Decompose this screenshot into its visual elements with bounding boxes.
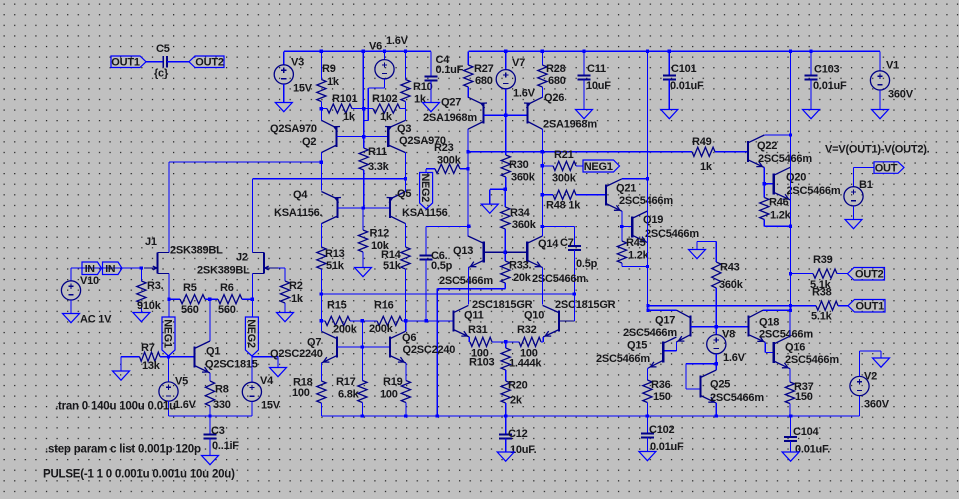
ground below R12: [355, 268, 372, 277]
svg-text:R5: R5: [183, 282, 197, 294]
transistor Q13 2SC5466m: [483, 241, 485, 262]
resistor R6: [208, 298, 211, 301]
net flag OUT: [874, 162, 904, 174]
svg-text:R33.: R33.: [509, 260, 532, 272]
resistor R20: [501, 381, 510, 403]
wire +360V rail B: [468, 50, 880, 52]
wire Q3-Q5 emitter column: [404, 177, 407, 180]
wire long VAS column: [646, 50, 649, 53]
svg-text:C5: C5: [156, 43, 170, 55]
transistor Q16 2SC5466m: [773, 342, 775, 363]
voltage source V1: [879, 51, 881, 71]
wire R33 to negative rail: [437, 288, 505, 290]
wire Q21 emitter to Q19 base: [621, 211, 623, 226]
svg-text:6.8k: 6.8k: [338, 389, 360, 401]
wire Q14 collector to C7: [541, 225, 544, 228]
svg-text:R31: R31: [468, 324, 488, 336]
svg-text:R27: R27: [474, 63, 494, 75]
wire J2 gate to R2: [278, 267, 285, 269]
wire Q21 collector: [622, 178, 648, 180]
resistor R28: [541, 50, 544, 53]
svg-text:1.6V: 1.6V: [174, 399, 197, 411]
wire V4 to ground link: [251, 401, 253, 416]
ground below C104: [782, 452, 799, 461]
capacitor C4: [430, 51, 432, 76]
resistor R45: [621, 227, 623, 242]
ground below V10: [70, 300, 72, 314]
svg-text:Q2SA970: Q2SA970: [270, 123, 317, 135]
ground below V3: [283, 84, 285, 103]
svg-text:2SC5466m: 2SC5466m: [710, 392, 764, 404]
ground below C101: [661, 110, 678, 119]
svg-text:Q20: Q20: [786, 172, 806, 184]
wire bias column: [362, 50, 365, 53]
net flag NEG2 (VAS): [425, 169, 427, 173]
wire Q7/Q6 base rail: [337, 346, 390, 348]
svg-text:Q18: Q18: [759, 317, 779, 329]
svg-text:R13: R13: [325, 248, 345, 260]
svg-text:Q13: Q13: [453, 245, 473, 257]
wire +15V rail A: [284, 50, 431, 52]
svg-text:R12: R12: [370, 228, 390, 240]
ground right of NEG2: [270, 368, 287, 377]
resistor R31: [468, 337, 470, 342]
svg-text:1.2k: 1.2k: [628, 250, 650, 262]
capacitor C12: [505, 416, 507, 435]
svg-text:1k: 1k: [327, 76, 340, 88]
resistor R38: [789, 304, 792, 307]
voltage source V8: [707, 335, 726, 354]
svg-text:R102: R102: [372, 93, 398, 105]
svg-text:Q6: Q6: [402, 332, 416, 344]
net flag NEG2 (input stage): [251, 299, 253, 317]
svg-text:2SA1968m: 2SA1968m: [423, 112, 477, 124]
wire Q6 collector drop: [405, 321, 407, 331]
transistor Q18 2SC5466m: [747, 316, 749, 337]
ground below C3: [202, 456, 219, 465]
svg-text:IN: IN: [85, 263, 95, 275]
wire C5 to OUT2: [167, 61, 189, 63]
capacitor C11: [582, 50, 585, 53]
svg-text:OUT1: OUT1: [856, 301, 885, 313]
wire Q16 collector: [789, 310, 791, 336]
transistor Q22 2SC5466m: [747, 141, 749, 162]
svg-text:R103: R103: [469, 357, 495, 369]
transistor Q15 2SC5466m: [662, 341, 664, 362]
resistor R46: [763, 184, 765, 198]
svg-text:20k: 20k: [513, 272, 532, 284]
svg-text:2SC5466m: 2SC5466m: [787, 185, 841, 197]
svg-text:1.6V: 1.6V: [513, 88, 536, 100]
wire Q26-collector column down: [541, 152, 543, 227]
wire Q14 emitter to Q10 collector: [542, 268, 544, 305]
wire mirror rail mid: [320, 292, 323, 295]
ground below C11: [576, 110, 593, 119]
svg-text:R32: R32: [517, 324, 537, 336]
svg-text:V3: V3: [291, 57, 304, 69]
svg-text:0.01uF: 0.01uF: [813, 80, 847, 92]
ground below V1: [879, 90, 881, 110]
svg-text:150: 150: [653, 391, 671, 403]
svg-text:R9: R9: [322, 63, 336, 75]
svg-text:V4: V4: [260, 375, 274, 387]
wire right output column: [790, 51, 792, 310]
wire VAS rail to R49: [468, 151, 692, 153]
wire J1 source column: [168, 274, 170, 300]
svg-text:V1: V1: [886, 60, 899, 72]
wire Q2 collector: [320, 109, 322, 121]
resistor R18: [320, 363, 322, 381]
wire Q4/Q5 base rail: [338, 207, 391, 209]
svg-text:Q19: Q19: [643, 214, 663, 226]
svg-text:R46: R46: [769, 197, 789, 209]
svg-text:100: 100: [380, 389, 398, 401]
svg-text:1k: 1k: [414, 94, 427, 106]
svg-text:R48 1k: R48 1k: [546, 200, 581, 212]
svg-text:R38: R38: [812, 287, 832, 299]
wire Q26/Q27 base rail: [483, 114, 527, 116]
svg-text:2SC5466m: 2SC5466m: [619, 195, 673, 207]
svg-text:C11: C11: [587, 63, 606, 75]
svg-text:R3.: R3.: [147, 280, 164, 292]
svg-text:2SC5466m: 2SC5466m: [439, 275, 493, 287]
svg-text:B1: B1: [859, 179, 873, 191]
resistor R39: [789, 272, 792, 275]
ground above V2: [860, 350, 882, 352]
wire Q10 base branch: [559, 320, 575, 322]
transistor Q5 KSA1156: [389, 197, 391, 218]
wire Q25 base loop: [686, 363, 716, 365]
svg-text:2SC5466m: 2SC5466m: [596, 353, 650, 365]
resistor R21: [541, 164, 544, 167]
svg-text:Q27: Q27: [441, 97, 461, 109]
wire Q13 base branch: [467, 169, 469, 227]
svg-text:560: 560: [181, 304, 199, 316]
svg-text:150: 150: [795, 391, 813, 403]
transistor Q11 2SC1815GR: [453, 311, 455, 332]
svg-text:2SC1815GR: 2SC1815GR: [555, 299, 616, 311]
svg-text:360k: 360k: [512, 219, 537, 231]
svg-text:2SK389BL: 2SK389BL: [170, 245, 223, 257]
wire OUT1 to C5: [146, 61, 163, 63]
svg-text:200k: 200k: [333, 324, 358, 336]
svg-text:2SC5466m: 2SC5466m: [759, 329, 813, 341]
svg-text:NEG2: NEG2: [245, 319, 257, 348]
svg-text:300k: 300k: [437, 155, 462, 167]
svg-text:Q2SC2240: Q2SC2240: [403, 344, 456, 356]
svg-text:1.6V: 1.6V: [723, 352, 746, 364]
svg-text:300k: 300k: [552, 173, 577, 185]
svg-text:13k: 13k: [142, 360, 161, 372]
svg-text:Q4: Q4: [293, 189, 308, 201]
svg-text:.tran 0 140u 100u 0.01u: .tran 0 140u 100u 0.01u: [55, 400, 176, 412]
resistor R49: [692, 147, 715, 156]
net flag OUT1: [111, 56, 146, 68]
svg-text:V6: V6: [369, 41, 382, 53]
svg-text:R20: R20: [508, 380, 528, 392]
svg-text:Q7: Q7: [307, 337, 321, 349]
svg-text:OUT2: OUT2: [195, 57, 224, 69]
svg-text:2SC5466m.: 2SC5466m.: [532, 273, 589, 285]
svg-text:R6: R6: [220, 282, 234, 294]
svg-text:1.6V: 1.6V: [386, 35, 409, 47]
svg-text:360V: 360V: [864, 399, 890, 411]
wire V5-V4 bottom link: [169, 415, 252, 417]
ground left of R7: [120, 357, 122, 371]
transistor Q10 2SC1815GR: [558, 311, 560, 332]
jfet J1 2SK389BL: [157, 253, 159, 274]
svg-text:R36: R36: [651, 379, 671, 391]
svg-text:C3: C3: [211, 425, 225, 437]
svg-text:1.444k: 1.444k: [509, 358, 542, 370]
wire output rails pair: [646, 304, 649, 307]
svg-text:.step param c list 0.001p 120p: .step param c list 0.001p 120p: [45, 443, 201, 455]
svg-text:R19: R19: [383, 376, 403, 388]
wire J1 drain rail: [168, 162, 170, 252]
svg-text:0.5p: 0.5p: [576, 258, 598, 270]
svg-text:100: 100: [292, 387, 310, 399]
svg-text:R11: R11: [368, 146, 387, 158]
net flag OUT2: [189, 56, 224, 68]
resistor R19: [405, 363, 407, 381]
svg-text:R16: R16: [374, 300, 394, 312]
capacitor C3: [208, 414, 211, 417]
svg-text:OUT1: OUT1: [111, 57, 140, 69]
wire Q25 emitter: [715, 403, 717, 416]
transistor Q25 2SC5466m: [699, 376, 701, 398]
svg-text:1k: 1k: [380, 111, 393, 123]
svg-text:R101: R101: [332, 93, 358, 105]
wire Q13 emitter to Q11 collector: [467, 268, 469, 305]
voltage source V2: [859, 396, 861, 416]
voltage source V7: [504, 50, 507, 53]
net flag NEG1 (input stage): [168, 299, 170, 317]
svg-text:0..1iF: 0..1iF: [212, 440, 239, 452]
wire Q18 collector: [763, 309, 791, 311]
resistor R12: [362, 208, 364, 230]
transistor Q21 2SC5466m: [605, 185, 607, 206]
resistor R7: [121, 356, 140, 358]
wire V7 to R30: [505, 89, 507, 155]
svg-text:Q17: Q17: [655, 315, 675, 327]
svg-text:J1: J1: [145, 236, 157, 248]
svg-text:0.01uF.: 0.01uF.: [795, 444, 830, 456]
wire V6 loop: [384, 79, 386, 88]
wire Q22 collector: [764, 134, 790, 136]
svg-text:2SK389BL: 2SK389BL: [197, 265, 250, 277]
svg-text:KSA1156: KSA1156: [402, 207, 448, 219]
svg-text:3.3k: 3.3k: [368, 161, 390, 173]
net flag NEG1 (VAS): [583, 160, 620, 172]
wire V5 to ground link: [168, 401, 170, 416]
svg-text:Q11: Q11: [464, 310, 484, 322]
wire Q2/Q3 base rail: [337, 136, 389, 138]
wire C6 branch: [426, 225, 469, 227]
svg-text:15V: 15V: [293, 83, 313, 95]
transistor Q7 Q2SC2240: [336, 337, 338, 358]
svg-text:AC 1V: AC 1V: [80, 314, 112, 326]
resistor R48: [541, 193, 544, 196]
svg-text:Q21: Q21: [616, 183, 636, 195]
svg-text:KSA1156.: KSA1156.: [274, 207, 323, 219]
ground bend above R43: [697, 241, 716, 243]
svg-text:1k: 1k: [700, 161, 713, 173]
svg-text:V10: V10: [80, 275, 99, 287]
wire negative rail: [321, 415, 859, 417]
transistor Q17 2SC5466m: [677, 310, 691, 318]
svg-text:2SC5466m: 2SC5466m: [785, 354, 839, 366]
wire Q26 collector drop: [541, 129, 543, 152]
resistor R101: [320, 107, 323, 110]
resistor R3: [140, 266, 143, 269]
svg-text:R39: R39: [813, 254, 833, 266]
capacitor C6: [420, 255, 433, 257]
wire Q18 emitter to Q16 base: [764, 342, 766, 352]
svg-text:C102: C102: [649, 424, 675, 436]
wire NEG2 node to V4 and ground: [251, 355, 253, 358]
ground bend at R30/R34: [504, 188, 507, 191]
wire Q22 emitter to Q20 base: [763, 168, 765, 184]
wire Q1 collector to R5/R6 junction: [209, 299, 211, 341]
resistor R17 drop: [361, 321, 363, 381]
svg-text:360k: 360k: [719, 279, 744, 291]
voltage source V6: [383, 50, 386, 53]
svg-text:C101: C101: [671, 63, 697, 75]
svg-text:0.1uF: 0.1uF: [436, 64, 464, 76]
svg-text:Q10: Q10: [524, 310, 544, 322]
transistor Q20 2SC5466m: [773, 173, 775, 194]
svg-text:Q14: Q14: [538, 238, 559, 250]
wire J2 source column: [251, 298, 254, 301]
junction R16/C6/R14: [404, 319, 407, 322]
resistor R14: [405, 224, 407, 247]
svg-text:910k: 910k: [137, 300, 162, 312]
svg-text:680: 680: [548, 75, 566, 87]
svg-text:Q16: Q16: [785, 342, 805, 354]
jfet J2 2SK389BL: [263, 253, 265, 274]
svg-text:V5: V5: [175, 376, 188, 388]
resistor R27: [467, 51, 469, 65]
transistor Q27 2SA1968m: [482, 103, 484, 124]
svg-text:10uF: 10uF: [586, 80, 611, 92]
svg-text:V8: V8: [722, 329, 735, 341]
svg-text:Q3: Q3: [397, 123, 411, 135]
transistor Q1 Q2SC1815: [193, 347, 195, 368]
ground below C103: [803, 110, 820, 119]
svg-text:330: 330: [213, 399, 231, 411]
net flag OUT1 (tap): [848, 300, 885, 313]
node Q13/Q14 bases: [504, 251, 507, 254]
svg-text:PULSE(-1 1 0 0.001u 0.001u 10u: PULSE(-1 1 0 0.001u 0.001u 10u 20u): [43, 468, 235, 480]
svg-text:R15: R15: [327, 300, 347, 312]
resistor R2: [280, 281, 289, 303]
transistor Q14 2SC5466m: [526, 241, 528, 262]
svg-text:Q1: Q1: [206, 346, 220, 358]
resistor R37: [789, 369, 791, 382]
ground below R2: [277, 313, 294, 322]
svg-text:R21: R21: [554, 149, 574, 161]
svg-text:560: 560: [218, 304, 236, 316]
transistor Q3 2SA970: [387, 126, 389, 147]
voltage source V5: [168, 357, 170, 382]
resistor R32: [504, 340, 507, 343]
svg-text:V2: V2: [864, 371, 877, 383]
svg-text:OUT: OUT: [875, 162, 898, 174]
wire J2 drain rail: [251, 179, 253, 253]
capacitor C101: [668, 50, 671, 53]
svg-text:R45: R45: [626, 237, 646, 249]
svg-text:{c}: {c}: [154, 68, 169, 80]
svg-text:Q22: Q22: [757, 140, 777, 152]
wire Q17/Q18 base rail: [690, 326, 748, 328]
svg-text:2SC5466m: 2SC5466m: [623, 327, 677, 339]
resistor R9: [320, 50, 323, 53]
behavioral source B1: [854, 167, 875, 169]
transistor Q19 2SC5466m: [631, 216, 633, 237]
wire Q17 emitter to Q15 base: [675, 342, 677, 351]
svg-text:5.1k: 5.1k: [811, 311, 833, 323]
svg-text:R34: R34: [510, 207, 531, 219]
svg-text:0.01uF: 0.01uF: [670, 80, 704, 92]
resistor R8: [209, 373, 211, 381]
svg-text:2SC5466m: 2SC5466m: [645, 228, 699, 240]
svg-text:V=V(OUT1)-V(OUT2).: V=V(OUT1)-V(OUT2).: [825, 144, 930, 156]
resistor R33: [504, 252, 506, 261]
capacitor C104: [790, 416, 792, 437]
svg-text:R17: R17: [336, 376, 356, 388]
svg-text:R28: R28: [546, 63, 566, 75]
svg-text:R49: R49: [692, 136, 712, 148]
resistor R36: [647, 368, 648, 369]
capacitor C7: [568, 245, 581, 247]
net flags IN and source V10: [71, 267, 141, 269]
svg-text:51k: 51k: [383, 260, 402, 272]
svg-text:680: 680: [475, 75, 493, 87]
resistor R43: [715, 242, 717, 263]
svg-text:R7: R7: [141, 342, 155, 354]
svg-text:Q2SC2240: Q2SC2240: [270, 348, 323, 360]
ground below R3: [133, 313, 150, 322]
transistor Q2 2SA970: [336, 126, 338, 147]
ground below B1: [853, 206, 855, 220]
svg-text:Q25: Q25: [710, 379, 730, 391]
transistor Q6 Q2SC2240: [389, 337, 391, 358]
resistor R23: [426, 168, 435, 170]
svg-text:15V: 15V: [261, 400, 281, 412]
svg-text:1.2k: 1.2k: [770, 210, 792, 222]
transistor Q26 2SA1968m: [526, 103, 528, 124]
svg-text:C103: C103: [814, 64, 840, 76]
resistor R10: [404, 50, 407, 53]
svg-text:R43: R43: [720, 262, 740, 274]
svg-text:IN: IN: [105, 263, 115, 275]
svg-text:R8: R8: [215, 384, 229, 396]
resistor R11: [359, 148, 368, 170]
capacitor C102: [646, 416, 648, 434]
svg-text:Q26: Q26: [544, 92, 564, 104]
svg-text:10uF.: 10uF.: [510, 444, 537, 456]
wire Q25 collector: [715, 364, 717, 370]
svg-text:R30: R30: [509, 159, 529, 171]
transistor Q4 KSA1156: [336, 197, 338, 218]
resistor R5: [167, 298, 170, 301]
svg-text:360V: 360V: [888, 89, 914, 101]
capacitor C5: [162, 56, 164, 67]
svg-text:Q2SC1815: Q2SC1815: [205, 359, 258, 371]
svg-text:NEG1: NEG1: [162, 319, 174, 348]
svg-text:Q5: Q5: [397, 188, 411, 200]
svg-text:200k: 200k: [369, 323, 394, 335]
